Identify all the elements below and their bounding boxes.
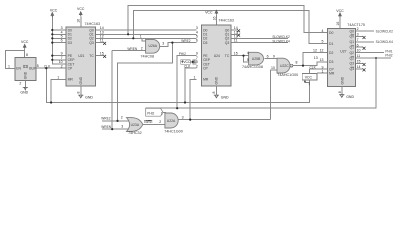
- svg-text:CP: CP: [203, 67, 208, 71]
- wire: U24 VCC pin16: [215, 15, 217, 25]
- svg-text:U22C: U22C: [280, 64, 289, 68]
- wire: U21 CEP stub: [52, 59, 66, 61]
- wire: U24 Q1 stub (NC): [231, 33, 237, 35]
- svg-text:3: 3: [162, 42, 164, 46]
- svg-text:Q1: Q1: [349, 46, 354, 50]
- svg-text:5: 5: [37, 64, 39, 68]
- svg-text:2: 2: [121, 116, 123, 120]
- svg-text:8: 8: [26, 53, 28, 57]
- svg-text:74HC08: 74HC08: [141, 55, 155, 59]
- wire: U22A output feedback to U22C pin10: [270, 70, 277, 120]
- wire: U21 D3 stub: [52, 42, 66, 44]
- wire: VCC to oscillator pin 8 and EN pin 1: [24, 49, 26, 57]
- svg-text:11: 11: [100, 39, 104, 43]
- svg-text:1: 1: [161, 112, 163, 116]
- svg-text:1: 1: [140, 35, 142, 39]
- wire: WREN input to U26A pin2: [112, 50, 145, 52]
- wire: U23A output WSE to U22A pin2: [143, 124, 165, 126]
- node: junction TC branch: [242, 55, 244, 57]
- wire: U26A output WRE2 to U24.D3: [160, 43, 197, 47]
- VCC power symbol above oscillator: [21, 40, 29, 49]
- wire: U27 NC stub at y=68.8: [356, 68, 363, 70]
- svg-text:12: 12: [320, 49, 324, 53]
- wire: U23A input2 WREN: [102, 128, 130, 130]
- wire: U21 VCC pin16: [80, 16, 82, 27]
- node: junction PHI2 at U27 Q2b: [375, 57, 377, 59]
- oscillator X1: [15, 57, 36, 80]
- svg-text:14: 14: [357, 65, 361, 69]
- svg-text:Q0: Q0: [349, 29, 354, 33]
- svg-text:10: 10: [357, 49, 361, 53]
- svg-text:2: 2: [141, 47, 143, 51]
- svg-text:4: 4: [322, 29, 324, 33]
- svg-text:15: 15: [234, 52, 238, 56]
- svg-text:GND: GND: [221, 95, 229, 99]
- svg-text:74HC163: 74HC163: [85, 22, 101, 26]
- wire: U23A input1 WRE2: [102, 120, 130, 122]
- svg-text:WRE2: WRE2: [181, 39, 190, 43]
- svg-text:VCC: VCC: [305, 76, 313, 80]
- ground below oscillator: [24, 80, 26, 87]
- wire: U24.MR drop to U22A output: [190, 79, 196, 119]
- node: junction Q1/T1: [127, 33, 129, 35]
- wire: VCC bus left of U21: [52, 16, 66, 64]
- wire: U27 Q1 out SLOWCLK4: [356, 41, 375, 43]
- svg-text:16: 16: [77, 19, 81, 23]
- svg-text:4: 4: [247, 51, 249, 55]
- wire: net Q0 (U21.Q0 to U24.D0): [96, 29, 197, 31]
- svg-text:GND: GND: [79, 76, 83, 84]
- ground below U27: [339, 95, 354, 99]
- svg-text:MR: MR: [329, 72, 335, 76]
- svg-text:Q3: Q3: [89, 41, 94, 45]
- svg-text:74AHC1G00: 74AHC1G00: [277, 73, 298, 77]
- wire: U24 Q3 out SLOWCLK4: [231, 42, 288, 44]
- wire: U27 GND pin8: [341, 87, 343, 95]
- svg-text:Q3: Q3: [349, 67, 354, 71]
- node: junction WREN on U23A input2: [111, 128, 113, 130]
- node: junction WRE2 branch: [171, 42, 173, 44]
- svg-text:2: 2: [196, 64, 198, 68]
- wire: U27 MR from VCC box: [317, 72, 328, 74]
- svg-text:WREN: WREN: [127, 47, 137, 51]
- svg-text:8: 8: [212, 92, 216, 94]
- wire: PHI2 net bottom rail: [146, 58, 376, 108]
- IC U21 74HC163: [66, 22, 100, 86]
- svg-text:TC: TC: [225, 54, 230, 58]
- node: junction VCC CEP/CET: [192, 61, 194, 63]
- svg-text:MR: MR: [68, 78, 74, 82]
- node: junction PHI2/U24.PE: [176, 107, 178, 109]
- VCC power symbol above U21: [77, 7, 85, 16]
- wire: WRE2 branch down to U23A input 1: [118, 43, 173, 121]
- svg-text:3: 3: [121, 124, 123, 128]
- wire: PHI2 riser to U24.PE: [177, 56, 196, 109]
- svg-text:GND: GND: [340, 76, 344, 84]
- svg-text:U27: U27: [340, 50, 346, 54]
- svg-text:2: 2: [357, 27, 359, 31]
- svg-text:VCC: VCC: [336, 9, 344, 13]
- svg-text:11: 11: [357, 54, 361, 58]
- svg-text:5: 5: [322, 40, 324, 44]
- svg-text:6: 6: [267, 55, 269, 59]
- svg-text:GND: GND: [23, 71, 27, 79]
- NAND gate U22C: [277, 58, 298, 77]
- wire: U27 NC stub at y=63.4: [356, 62, 363, 64]
- svg-text:2: 2: [19, 82, 21, 86]
- svg-text:11: 11: [234, 39, 238, 43]
- wire: U21 MR to CLK rail: [51, 79, 66, 102]
- svg-text:CLK: CLK: [184, 64, 191, 68]
- svg-text:15: 15: [357, 60, 361, 64]
- svg-text:3: 3: [182, 116, 184, 120]
- wire: U21 TC stub (NC): [96, 55, 104, 57]
- svg-text:13: 13: [314, 56, 318, 60]
- wire: U24 GND pin8: [215, 86, 217, 95]
- svg-text:U25B: U25B: [252, 57, 261, 61]
- svg-text:2: 2: [61, 64, 63, 68]
- svg-text:8: 8: [296, 61, 298, 65]
- svg-text:12: 12: [313, 49, 317, 53]
- svg-text:GND: GND: [85, 95, 93, 99]
- AND gate U26A 74HC08: [141, 39, 160, 58]
- svg-text:WRE2: WRE2: [101, 116, 110, 120]
- wire: U21 D1 stub: [52, 33, 66, 35]
- svg-text:VCC: VCC: [77, 7, 85, 11]
- svg-text:3: 3: [357, 33, 359, 37]
- svg-text:GND: GND: [346, 95, 354, 99]
- wire: U21 GND pin8: [80, 86, 82, 95]
- VCC boxed label at U24 CEP/CET: [181, 60, 191, 65]
- svg-text:D3: D3: [203, 41, 207, 45]
- svg-text:1: 1: [57, 75, 59, 79]
- svg-text:15: 15: [100, 52, 104, 56]
- svg-text:9: 9: [273, 55, 275, 59]
- svg-text:74HC1G00: 74HC1G00: [164, 130, 182, 134]
- svg-text:6: 6: [357, 43, 359, 47]
- wire: U27 NC stub at y=36.4: [356, 35, 363, 37]
- svg-text:74AHC1G08: 74AHC1G08: [242, 65, 263, 69]
- svg-text:D3: D3: [329, 60, 333, 64]
- wire: U27 VCC pin16: [339, 18, 341, 29]
- wire: WREN drop to U23A input 2: [111, 51, 113, 130]
- wire: U27 Q2b out PHI2: [356, 57, 392, 59]
- svg-text:SLOWCLK4: SLOWCLK4: [376, 40, 394, 44]
- svg-text:1: 1: [193, 75, 195, 79]
- svg-text:16: 16: [336, 22, 340, 26]
- wire: net Q2 riser to top rail T2 feeding U27.D1: [133, 11, 327, 44]
- svg-text:CP: CP: [68, 67, 73, 71]
- svg-text:16: 16: [212, 16, 216, 20]
- svg-text:GND: GND: [214, 76, 218, 84]
- wire: U22A output long run: [179, 119, 271, 121]
- svg-text:2: 2: [159, 120, 161, 124]
- OR gate U23A 74HC32: [126, 118, 142, 135]
- svg-text:5: 5: [247, 58, 249, 62]
- svg-text:EN: EN: [16, 66, 21, 70]
- svg-text:VCC: VCC: [21, 40, 29, 44]
- VCC boxed label at U27.MR: [302, 73, 317, 85]
- svg-text:D0: D0: [329, 31, 333, 35]
- svg-text:U23A: U23A: [131, 123, 140, 127]
- svg-text:74HC32: 74HC32: [128, 131, 142, 135]
- wire: CLK net bottom rail (osc out, U21.CP, U24.CP, U27.CP): [36, 67, 66, 69]
- svg-text:CLK: CLK: [310, 65, 317, 69]
- IC U27 74ACT175: [328, 23, 365, 86]
- wire: U24.TC to U25B inputs: [231, 55, 249, 57]
- wire: U21 PE stub: [52, 55, 66, 57]
- svg-text:Q3: Q3: [349, 62, 354, 66]
- svg-text:VCC: VCC: [50, 8, 58, 12]
- NAND gate U22A 74HC1G00: [164, 113, 182, 134]
- svg-text:PHI2: PHI2: [179, 52, 186, 56]
- global label box PHI2 at U22A pin1: [146, 108, 163, 116]
- VCC power symbol above U24: [205, 10, 218, 15]
- node: junction U24.MR on U22A output: [189, 119, 191, 121]
- svg-text:Q3: Q3: [225, 41, 230, 45]
- svg-text:1: 1: [322, 69, 324, 73]
- svg-text:MR: MR: [203, 78, 209, 82]
- svg-text:Q2: Q2: [349, 56, 354, 60]
- wire: U27 NC stub at y=47.2: [356, 46, 363, 48]
- svg-text:WREN: WREN: [101, 125, 111, 129]
- svg-text:D2: D2: [329, 51, 333, 55]
- ground below U24: [214, 95, 229, 99]
- svg-text:D1: D1: [329, 42, 333, 46]
- svg-text:CLK: CLK: [44, 65, 51, 69]
- svg-text:Q0: Q0: [349, 35, 354, 39]
- svg-text:8: 8: [338, 91, 342, 93]
- wire: U22C output to U27.D2 and U27.D3: [293, 53, 328, 66]
- wire: U25B output to U22C pin9: [265, 58, 278, 60]
- VCC power symbol above U27: [336, 9, 344, 18]
- wire: net Q1 (U21.Q1 to U24.D1): [96, 33, 197, 35]
- svg-text:1: 1: [8, 64, 10, 68]
- AND gate U25B 74AHC1G08: [242, 52, 264, 69]
- IC U24 74HC163: [202, 18, 234, 86]
- svg-text:8: 8: [77, 92, 81, 94]
- svg-text:6: 6: [196, 39, 198, 43]
- svg-text:VCC: VCC: [205, 10, 213, 14]
- node: junction U21.MR on rail: [50, 101, 52, 103]
- ground below U21: [78, 95, 93, 99]
- wire: U24 CP drop to CLK rail: [185, 68, 197, 102]
- svg-text:10: 10: [271, 66, 275, 70]
- VCC power symbol left bus: [50, 8, 58, 17]
- wire: PHI2 label box stub to U22A pin1: [163, 111, 166, 113]
- svg-text:VCC: VCC: [183, 60, 191, 64]
- node: junction Q2/T2: [132, 37, 134, 39]
- svg-text:WSE: WSE: [145, 120, 152, 124]
- svg-text:TC: TC: [89, 54, 94, 58]
- node: junction U22C output branch: [302, 65, 304, 67]
- svg-text:PHI2: PHI2: [385, 53, 392, 57]
- wire: U21 D2 stub: [52, 37, 66, 39]
- svg-text:13: 13: [320, 58, 324, 62]
- svg-text:U26A: U26A: [149, 44, 158, 48]
- svg-text:7: 7: [357, 38, 359, 42]
- wire: net Q2 (U21.Q2 to U24.D2): [96, 37, 197, 39]
- svg-text:U24: U24: [214, 54, 220, 58]
- svg-text:GND: GND: [20, 91, 28, 95]
- wire: U21 D0 stub: [52, 29, 66, 31]
- svg-text:SLOWCLK4: SLOWCLK4: [272, 39, 290, 43]
- svg-text:BUF: BUF: [29, 66, 36, 70]
- wire: net Q1 riser to top rail T1 feeding U27.D0: [128, 5, 328, 34]
- wire: U27 Q0 out SLOWCLK2: [356, 30, 375, 32]
- svg-text:U22A: U22A: [167, 119, 176, 123]
- svg-text:6: 6: [61, 39, 63, 43]
- wire: U26A pin1 tap from Q2: [142, 38, 146, 41]
- wire: U27 Q2 out PHI1: [356, 52, 385, 54]
- svg-text:U21: U21: [78, 54, 84, 58]
- wire: U24 Q0 stub (NC): [231, 29, 237, 31]
- svg-text:PHI2: PHI2: [147, 111, 154, 115]
- svg-text:74HC163: 74HC163: [218, 18, 234, 22]
- svg-text:Q2: Q2: [349, 51, 354, 55]
- node: junction WRE2 on U23A input1: [116, 120, 118, 122]
- wire: VCC box to U24 CEP/CET: [190, 61, 196, 63]
- wire: U24 Q2 out SLOWCLK2: [231, 37, 288, 39]
- node: junction CLK at oscillator output: [45, 67, 47, 69]
- node: VCC bus junctions: [51, 29, 53, 31]
- svg-text:SLOWCLK2: SLOWCLK2: [376, 29, 394, 33]
- node: junction U24 CLK on rail: [184, 101, 186, 103]
- svg-text:D3: D3: [68, 41, 72, 45]
- wire: U21 Q3 stub (NC): [96, 42, 104, 44]
- svg-text:Q1: Q1: [349, 40, 354, 44]
